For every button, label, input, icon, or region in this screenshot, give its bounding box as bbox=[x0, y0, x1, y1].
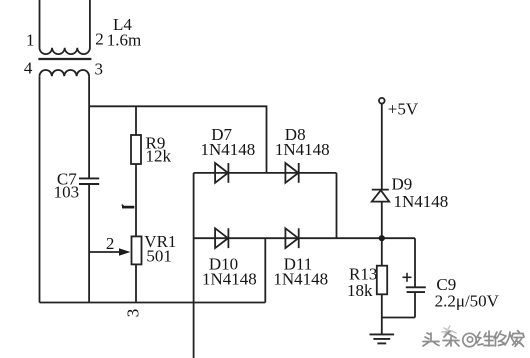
svg-text:1: 1 bbox=[26, 31, 35, 50]
svg-text:2: 2 bbox=[106, 234, 115, 253]
svg-text:12k: 12k bbox=[146, 147, 172, 166]
svg-text:4: 4 bbox=[24, 59, 33, 78]
svg-text:3: 3 bbox=[95, 60, 104, 79]
svg-text:103: 103 bbox=[54, 183, 80, 202]
svg-text:1.6m: 1.6m bbox=[107, 31, 141, 50]
svg-text:501: 501 bbox=[146, 247, 172, 266]
svg-text:+5V: +5V bbox=[388, 100, 419, 119]
svg-text:3: 3 bbox=[123, 309, 142, 318]
svg-text:2: 2 bbox=[95, 30, 104, 49]
svg-text:1N4148: 1N4148 bbox=[202, 270, 257, 289]
svg-text:1N4148: 1N4148 bbox=[394, 192, 449, 211]
svg-text:1N4148: 1N4148 bbox=[275, 140, 330, 159]
svg-text:2.2μ/50V: 2.2μ/50V bbox=[435, 292, 500, 311]
svg-text:D9: D9 bbox=[392, 175, 413, 194]
svg-text:1N4148: 1N4148 bbox=[273, 270, 328, 289]
svg-text:18k: 18k bbox=[347, 281, 373, 300]
svg-text:1N4148: 1N4148 bbox=[201, 140, 256, 159]
